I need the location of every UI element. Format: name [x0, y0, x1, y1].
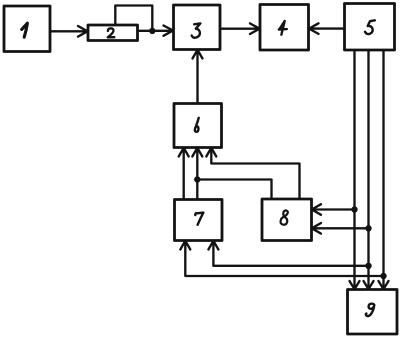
- junction dot wire A: [351, 206, 357, 212]
- junction dot wire B lower: [365, 263, 371, 269]
- wire 7 to 6 middle: [192, 148, 202, 200]
- block 4: [260, 5, 309, 51]
- feedback loop over block 2: [115, 6, 152, 31]
- junction dot wire B upper: [365, 225, 371, 231]
- wire 2 to 3: [138, 26, 174, 36]
- junction dot wire C: [380, 273, 386, 279]
- wire 5 to 4: [309, 23, 345, 34]
- wire C branch to 7 bottom left: [180, 241, 383, 276]
- wire junction to 8 top left: [197, 180, 271, 200]
- wire 6 to 3: [193, 50, 203, 104]
- wire B branch to 8 lower right: [312, 223, 369, 234]
- block 6: [174, 104, 222, 148]
- wire B branch to 7 bottom right: [208, 241, 368, 266]
- wire A branch to 8 upper right: [312, 204, 355, 215]
- block 8: [262, 199, 312, 241]
- wire 8 top to 6 right: [206, 148, 299, 199]
- block 3: [174, 5, 221, 50]
- wire C from 5 to 9 right: [379, 50, 389, 289]
- junction dot on wire 7-6: [194, 176, 200, 182]
- block 9: [348, 290, 398, 335]
- block 7: [175, 200, 223, 241]
- block 2: [88, 25, 138, 41]
- wire 1 to 2: [50, 26, 88, 37]
- block 1: [4, 6, 50, 52]
- wire B from 5 to 9 middle: [364, 50, 374, 289]
- wire A from 5 to 9 left: [350, 50, 360, 289]
- wire 7 to 6 left: [179, 148, 189, 200]
- block 5: [345, 4, 395, 51]
- junction dot on wire 2-3: [149, 28, 155, 34]
- wire 3 to 4: [220, 23, 260, 34]
